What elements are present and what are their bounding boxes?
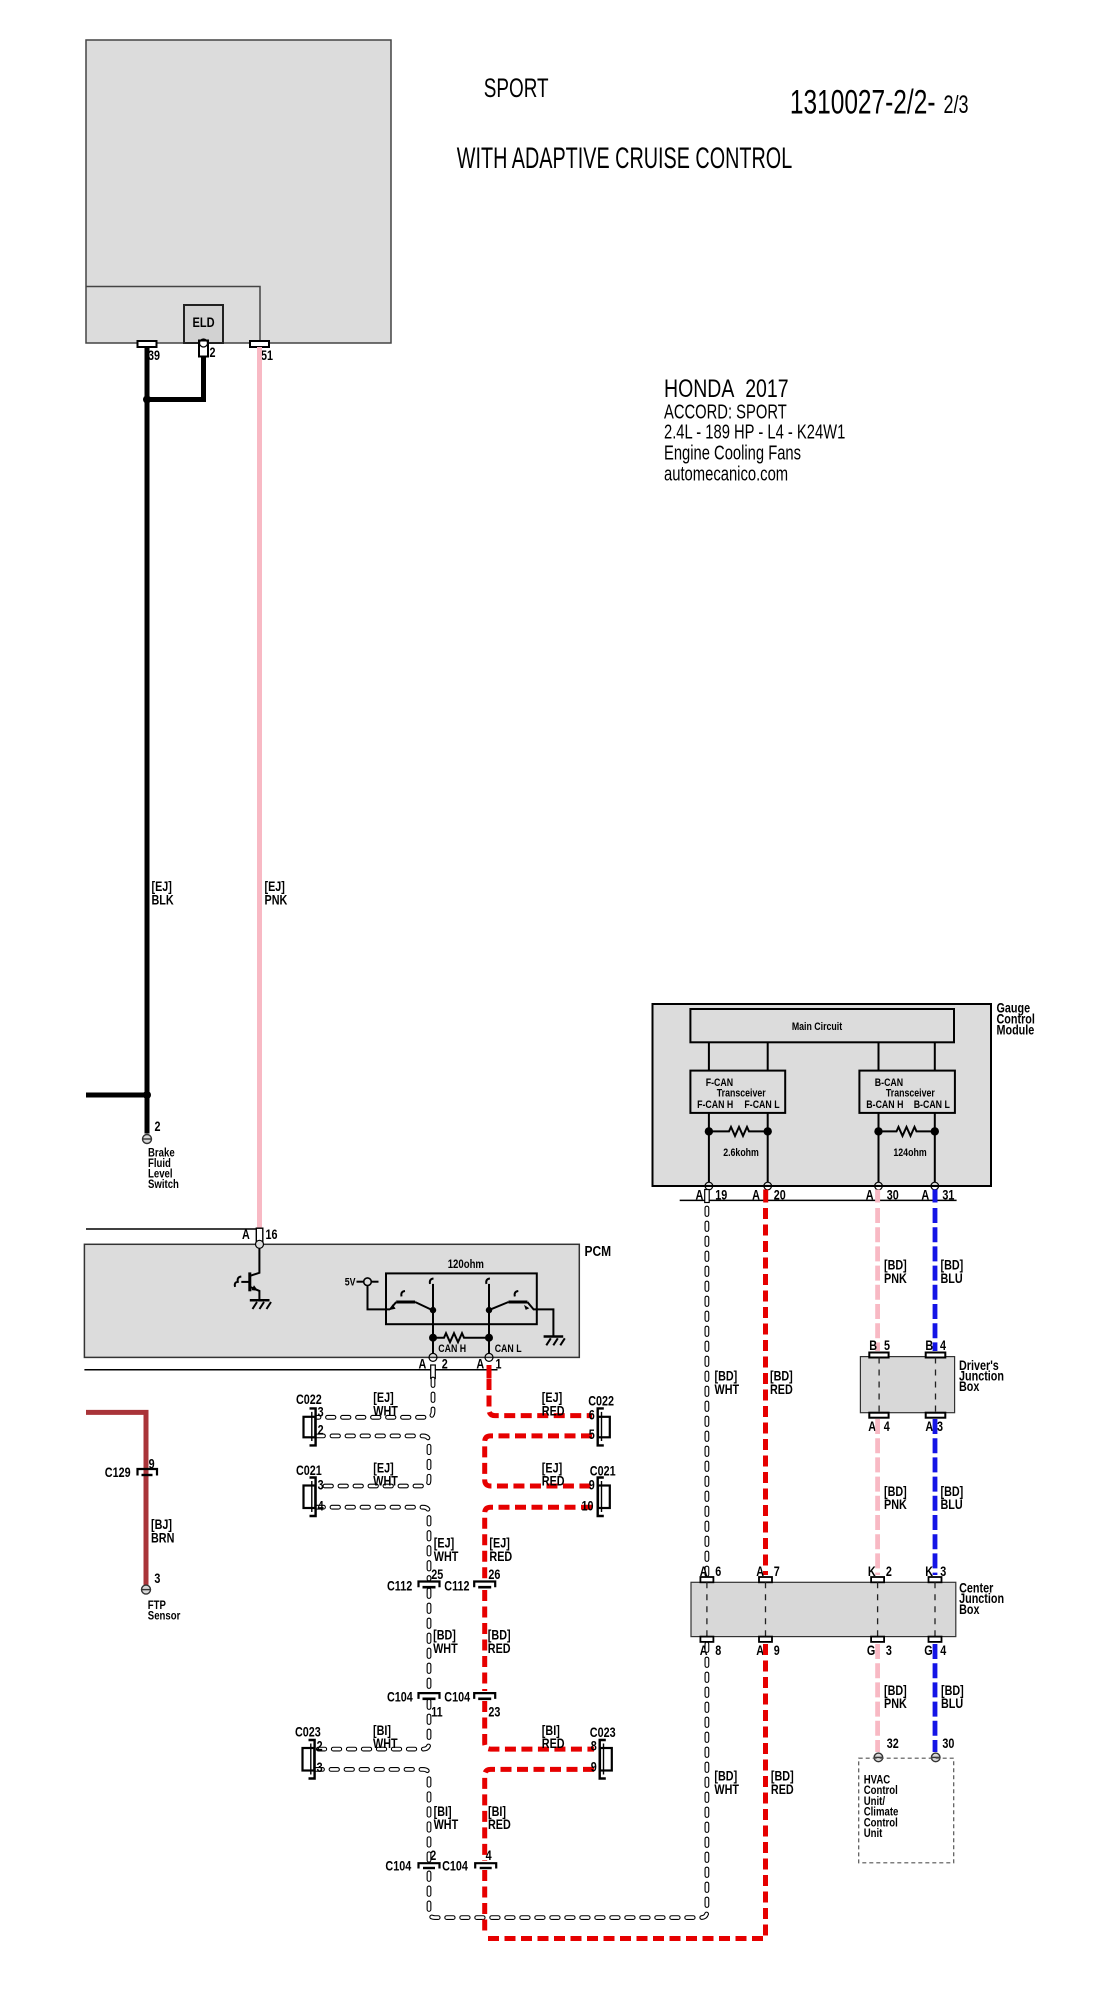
gauge pin strip line <box>680 1199 957 1201</box>
svg-text:PNK: PNK <box>884 1497 907 1512</box>
svg-text:B-CAN H: B-CAN H <box>866 1099 903 1111</box>
wire EJ RED C022 pin5 to C021 pin9 <box>485 1436 592 1486</box>
svg-text:Transceiver: Transceiver <box>886 1088 935 1100</box>
svg-text:RED: RED <box>542 1474 565 1489</box>
svg-text:2: 2 <box>318 1422 324 1437</box>
pin A3 tab <box>926 1413 946 1418</box>
transistor Q1 (A16 driver) <box>250 1248 260 1276</box>
wire EJ WHT C022 pin2 to C021 pin3 <box>317 1436 429 1486</box>
terminal 3 FTP sensor <box>142 1585 151 1594</box>
svg-text:39: 39 <box>148 348 160 363</box>
svg-text:WHT: WHT <box>714 1782 739 1797</box>
svg-text:A: A <box>756 1564 764 1579</box>
wire BD RED C112 to C104 <box>482 1590 487 1691</box>
svg-text:B: B <box>925 1338 933 1353</box>
svg-text:G: G <box>867 1643 875 1658</box>
junction dot <box>143 396 151 404</box>
wires resistor row to module edge <box>709 1131 935 1182</box>
svg-text:3: 3 <box>154 1571 160 1586</box>
svg-text:A: A <box>700 1564 708 1579</box>
svg-text:2: 2 <box>886 1564 892 1579</box>
svg-text:BRN: BRN <box>151 1530 174 1545</box>
svg-text:RED: RED <box>770 1382 793 1397</box>
svg-text:2: 2 <box>442 1356 448 1371</box>
svg-text:HONDA 2017: HONDA 2017 <box>664 374 789 402</box>
wire BD BLU A31 to B4 <box>933 1208 938 1351</box>
internal dashed path B4-A3 <box>935 1358 937 1413</box>
120ohm resistor box <box>386 1273 537 1324</box>
wire pink EJ PNK <box>257 347 262 1244</box>
svg-text:3: 3 <box>886 1643 892 1658</box>
B-CAN transceiver box U-BCAN <box>859 1071 955 1113</box>
pin A4 tab <box>869 1413 888 1418</box>
svg-text:31: 31 <box>942 1187 954 1202</box>
svg-text:A: A <box>419 1356 427 1371</box>
CAN L vertical wire <box>488 1284 490 1338</box>
svg-text:RED: RED <box>489 1549 512 1564</box>
wire BI RED C104 pin4 to bottom run <box>482 1870 487 1936</box>
svg-text:B-CAN L: B-CAN L <box>914 1099 950 1111</box>
main circuit box <box>690 1009 954 1042</box>
svg-text:WHT: WHT <box>434 1817 459 1832</box>
svg-text:5V: 5V <box>345 1277 356 1289</box>
svg-text:5: 5 <box>589 1427 595 1442</box>
wire BD RED A20 to A7 <box>763 1208 768 1575</box>
pin B4 tab <box>926 1353 946 1358</box>
svg-text:A: A <box>868 1419 876 1434</box>
wire black from pin 39 <box>145 347 150 1134</box>
svg-text:2/3: 2/3 <box>944 90 969 119</box>
svg-text:RED: RED <box>542 1736 565 1751</box>
wire EJ WHT A2 to C022 pin3 <box>317 1379 433 1417</box>
wire black from ELD pin 2 <box>147 357 204 400</box>
svg-text:2: 2 <box>317 1738 323 1753</box>
PCM box <box>84 1244 579 1357</box>
svg-text:3: 3 <box>317 1760 323 1775</box>
svg-text:automecanico.com: automecanico.com <box>664 462 788 485</box>
pin K2 tab <box>871 1577 884 1582</box>
svg-text:C021: C021 <box>296 1463 322 1478</box>
svg-text:RED: RED <box>488 1817 511 1832</box>
pin K3 tab <box>929 1577 942 1582</box>
svg-text:RED: RED <box>542 1403 565 1418</box>
svg-text:3: 3 <box>940 1564 946 1579</box>
terminal 32 <box>874 1753 883 1762</box>
wire BI RED C104 to C023 pin8 <box>485 1701 594 1749</box>
curl CAN L <box>486 1279 490 1284</box>
wire BD PNK A4 to K2 <box>875 1419 880 1575</box>
HVAC control unit box <box>859 1758 954 1863</box>
svg-text:Module: Module <box>997 1022 1035 1037</box>
svg-text:9: 9 <box>774 1643 780 1658</box>
svg-text:F-CAN H: F-CAN H <box>697 1099 733 1111</box>
svg-text:C104: C104 <box>444 1689 470 1704</box>
svg-text:WHT: WHT <box>434 1549 459 1564</box>
svg-text:30: 30 <box>942 1736 954 1751</box>
pin A6 tab <box>700 1577 713 1582</box>
wire BJ BRN <box>86 1412 146 1585</box>
F-CAN transceiver box U-FCAN <box>690 1071 785 1113</box>
svg-text:CAN H: CAN H <box>438 1343 466 1355</box>
svg-text:26: 26 <box>488 1567 500 1582</box>
PCM top pin strip line <box>86 1228 256 1230</box>
svg-text:A: A <box>921 1187 929 1202</box>
svg-text:WHT: WHT <box>373 1474 398 1489</box>
svg-text:3: 3 <box>318 1405 324 1420</box>
svg-text:B: B <box>869 1338 877 1353</box>
svg-text:4: 4 <box>884 1419 890 1434</box>
svg-text:2.4L - 189 HP - L4 - K24W1: 2.4L - 189 HP - L4 - K24W1 <box>664 420 845 443</box>
svg-text:124ohm: 124ohm <box>893 1147 926 1159</box>
svg-text:Unit: Unit <box>864 1827 883 1840</box>
ground (right) <box>544 1335 564 1338</box>
svg-text:WHT: WHT <box>373 1403 398 1418</box>
svg-text:8: 8 <box>715 1643 721 1658</box>
wire main to F-CAN transceiver <box>709 1042 768 1070</box>
junction dot <box>143 1091 151 1099</box>
svg-text:2: 2 <box>210 345 216 360</box>
transistor Q2 (CAN H driver) <box>396 1301 415 1304</box>
svg-text:Transceiver: Transceiver <box>717 1088 766 1100</box>
pin exit circles A2 A1 <box>429 1353 437 1361</box>
svg-text:SPORT: SPORT <box>484 73 549 103</box>
svg-text:C104: C104 <box>385 1858 411 1873</box>
svg-text:3: 3 <box>937 1419 943 1434</box>
svg-text:K: K <box>925 1564 933 1579</box>
wire BI WHT C104 to C023 pin2 <box>316 1701 429 1749</box>
svg-text:ELD: ELD <box>192 315 214 330</box>
svg-text:9: 9 <box>589 1477 595 1492</box>
svg-text:PNK: PNK <box>884 1271 907 1286</box>
svg-text:BLU: BLU <box>941 1271 963 1286</box>
svg-text:Sensor: Sensor <box>148 1610 181 1623</box>
pin 2 tab (ELD) <box>199 341 208 357</box>
svg-text:Engine Cooling Fans: Engine Cooling Fans <box>664 441 801 464</box>
wire main to B-CAN transceiver <box>879 1042 935 1070</box>
pin 39 tab <box>138 341 157 347</box>
svg-text:1310027-2/2-: 1310027-2/2- <box>790 84 936 122</box>
svg-text:PNK: PNK <box>265 892 288 907</box>
wire BD PNK G3 to terminal 32 <box>875 1644 880 1752</box>
wire BD WHT A8 down and left <box>429 1644 707 1918</box>
svg-text:A: A <box>866 1187 874 1202</box>
pin A7 tab <box>759 1577 772 1582</box>
svg-text:PNK: PNK <box>884 1696 907 1711</box>
svg-text:C023: C023 <box>295 1724 321 1739</box>
svg-text:30: 30 <box>887 1187 899 1202</box>
svg-text:G: G <box>924 1643 932 1658</box>
under-hood fuse box boundary line <box>86 287 260 344</box>
pin G4 tab <box>929 1637 942 1642</box>
svg-text:11: 11 <box>431 1704 443 1719</box>
svg-text:20: 20 <box>774 1187 786 1202</box>
terminal 2 brake fluid level switch <box>143 1135 152 1144</box>
svg-text:C129: C129 <box>105 1465 131 1480</box>
svg-text:A: A <box>925 1419 933 1434</box>
svg-text:6: 6 <box>715 1564 721 1579</box>
svg-text:19: 19 <box>715 1187 727 1202</box>
svg-text:2: 2 <box>155 1119 161 1134</box>
svg-text:2.6kohm: 2.6kohm <box>723 1147 759 1159</box>
svg-text:4: 4 <box>940 1338 946 1353</box>
pin A9 tab <box>759 1637 772 1642</box>
wire BD WHT C112 to C104 <box>427 1590 432 1691</box>
svg-text:4: 4 <box>318 1498 324 1513</box>
wire BI RED C023 pin9 down to C104 pin4 <box>485 1769 594 1861</box>
svg-text:C104: C104 <box>442 1858 468 1873</box>
wire EJ RED A1 to C022 pin6 <box>489 1379 592 1416</box>
svg-text:51: 51 <box>261 348 273 363</box>
pin G3 tab <box>871 1637 884 1642</box>
CAN H vertical wire <box>432 1284 434 1338</box>
ground (Q1 emitter) <box>250 1299 270 1302</box>
svg-text:2: 2 <box>430 1848 436 1863</box>
wire black branch left <box>86 1093 147 1098</box>
wire EJ WHT C021 pin4 down to C112 <box>317 1507 429 1579</box>
svg-text:Box: Box <box>959 1379 980 1394</box>
svg-text:CAN L: CAN L <box>495 1343 522 1355</box>
svg-text:16: 16 <box>266 1227 278 1242</box>
svg-text:23: 23 <box>488 1704 500 1719</box>
svg-text:WITH ADAPTIVE CRUISE CONTROL: WITH ADAPTIVE CRUISE CONTROL <box>457 142 792 175</box>
wire EJ RED C021 pin10 down to C112 <box>485 1507 592 1579</box>
svg-text:7: 7 <box>774 1564 780 1579</box>
svg-text:A: A <box>476 1356 484 1371</box>
wires transceiver to resistor row <box>709 1113 935 1132</box>
PCM bottom pin strip line <box>84 1369 497 1371</box>
svg-text:8: 8 <box>591 1738 597 1753</box>
svg-text:A: A <box>752 1187 760 1202</box>
pin B5 tab <box>869 1353 888 1358</box>
svg-text:5: 5 <box>884 1338 890 1353</box>
svg-text:C112: C112 <box>444 1578 469 1593</box>
svg-text:10: 10 <box>582 1498 594 1513</box>
svg-text:PCM: PCM <box>585 1243 612 1260</box>
wire BD BLU G4 to terminal 30 <box>933 1644 938 1752</box>
svg-text:Switch: Switch <box>148 1178 179 1191</box>
svg-text:C112: C112 <box>387 1578 412 1593</box>
svg-text:RED: RED <box>488 1641 511 1656</box>
driver's junction box <box>860 1357 954 1413</box>
svg-text:BLK: BLK <box>152 892 174 907</box>
svg-text:RED: RED <box>771 1782 794 1797</box>
wire BD WHT A19 to A6 <box>705 1208 710 1575</box>
svg-text:Box: Box <box>959 1602 980 1617</box>
pin 51 tab <box>250 341 269 347</box>
svg-text:C104: C104 <box>387 1689 413 1704</box>
wire BD PNK A30 to B5 <box>875 1208 880 1351</box>
wire BD RED A9 down and left <box>485 1644 766 1939</box>
svg-text:4: 4 <box>486 1848 492 1863</box>
svg-text:A: A <box>242 1227 250 1242</box>
svg-text:32: 32 <box>887 1736 899 1751</box>
svg-text:WHT: WHT <box>715 1382 740 1397</box>
svg-text:Main Circuit: Main Circuit <box>792 1021 843 1033</box>
svg-text:WHT: WHT <box>373 1736 398 1751</box>
ELD unit U-ELD <box>184 305 223 343</box>
center junction box <box>691 1582 956 1636</box>
engine compartment box <box>86 40 391 343</box>
transistor Q3 (CAN L driver) <box>509 1301 528 1304</box>
svg-text:1: 1 <box>496 1356 502 1371</box>
wire 5V to transistor <box>368 1286 391 1310</box>
svg-text:WHT: WHT <box>433 1641 458 1656</box>
pin exit circles <box>705 1182 713 1190</box>
svg-text:120ohm: 120ohm <box>448 1258 484 1271</box>
svg-text:3: 3 <box>318 1477 324 1492</box>
svg-text:BLU: BLU <box>941 1696 963 1711</box>
svg-text:6: 6 <box>589 1407 595 1422</box>
svg-text:25: 25 <box>431 1567 443 1582</box>
wires CAN to PCM edge <box>433 1338 489 1354</box>
junction dots CAN <box>430 1307 436 1313</box>
svg-text:9: 9 <box>591 1759 597 1774</box>
svg-text:BLU: BLU <box>941 1497 963 1512</box>
resistor 2.6kohm <box>709 1127 768 1136</box>
curl CAN H <box>430 1279 434 1284</box>
internal dashed paths center box <box>706 1582 708 1636</box>
wire BD BLU A3 to K3 <box>933 1419 938 1575</box>
120ohm resistor between CAN H and CAN L <box>433 1333 489 1342</box>
pin A8 tab <box>700 1637 713 1642</box>
svg-text:4: 4 <box>940 1643 946 1658</box>
svg-text:K: K <box>868 1564 876 1579</box>
terminal 30 <box>931 1753 940 1762</box>
gauge control module box <box>653 1004 992 1186</box>
svg-text:A: A <box>696 1187 704 1202</box>
svg-text:F-CAN L: F-CAN L <box>744 1099 779 1111</box>
wire BI WHT C023 pin3 down to C104 pin2 <box>316 1769 429 1861</box>
internal dashed path B5-A4 <box>878 1358 880 1413</box>
svg-text:9: 9 <box>149 1456 155 1471</box>
resistor 124ohm <box>879 1127 935 1136</box>
